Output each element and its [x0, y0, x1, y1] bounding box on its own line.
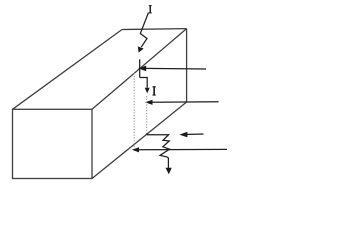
- box top-right edge: [92, 29, 187, 110]
- arrowhead of short horizontal arrow: [179, 132, 187, 138]
- vertical current path segment on top face: [139, 59, 141, 77]
- arrowhead of bottom lightning arrow: [166, 168, 172, 174]
- arrowhead of top lightning arrow: [138, 46, 144, 52]
- box bottom-right edge: [92, 102, 187, 179]
- horizontal arrow 1 (points left at upper path): [144, 67, 206, 70]
- box top-left edge: [13, 30, 123, 110]
- step wire to inner current arrow: [140, 78, 148, 88]
- horizontal arrow 2 (points left at mid path): [151, 101, 219, 104]
- short horizontal arrow (points left, mid bottom): [185, 133, 204, 136]
- label I (top current): [149, 5, 152, 13]
- arrowhead of horizontal arrow 1: [138, 66, 146, 72]
- dotted guide line (outer, lower): [133, 73, 135, 150]
- arrowhead of inner current arrow I: [145, 88, 150, 94]
- arrowhead of horizontal arrow 2: [145, 100, 153, 105]
- arrowhead of long horizontal arrow: [132, 147, 139, 152]
- box top back edge: [122, 28, 187, 31]
- label I (inner current): [153, 86, 156, 95]
- current I lightning arrow (top): [140, 13, 148, 48]
- bottom lightning scribble arrow: [147, 133, 170, 169]
- dotted guide line (inner, upper): [146, 96, 148, 132]
- box back-right vertical edge: [186, 29, 188, 102]
- conductor bar box: front face: [13, 29, 187, 179]
- long horizontal arrow (points left at bottom): [138, 148, 228, 150]
